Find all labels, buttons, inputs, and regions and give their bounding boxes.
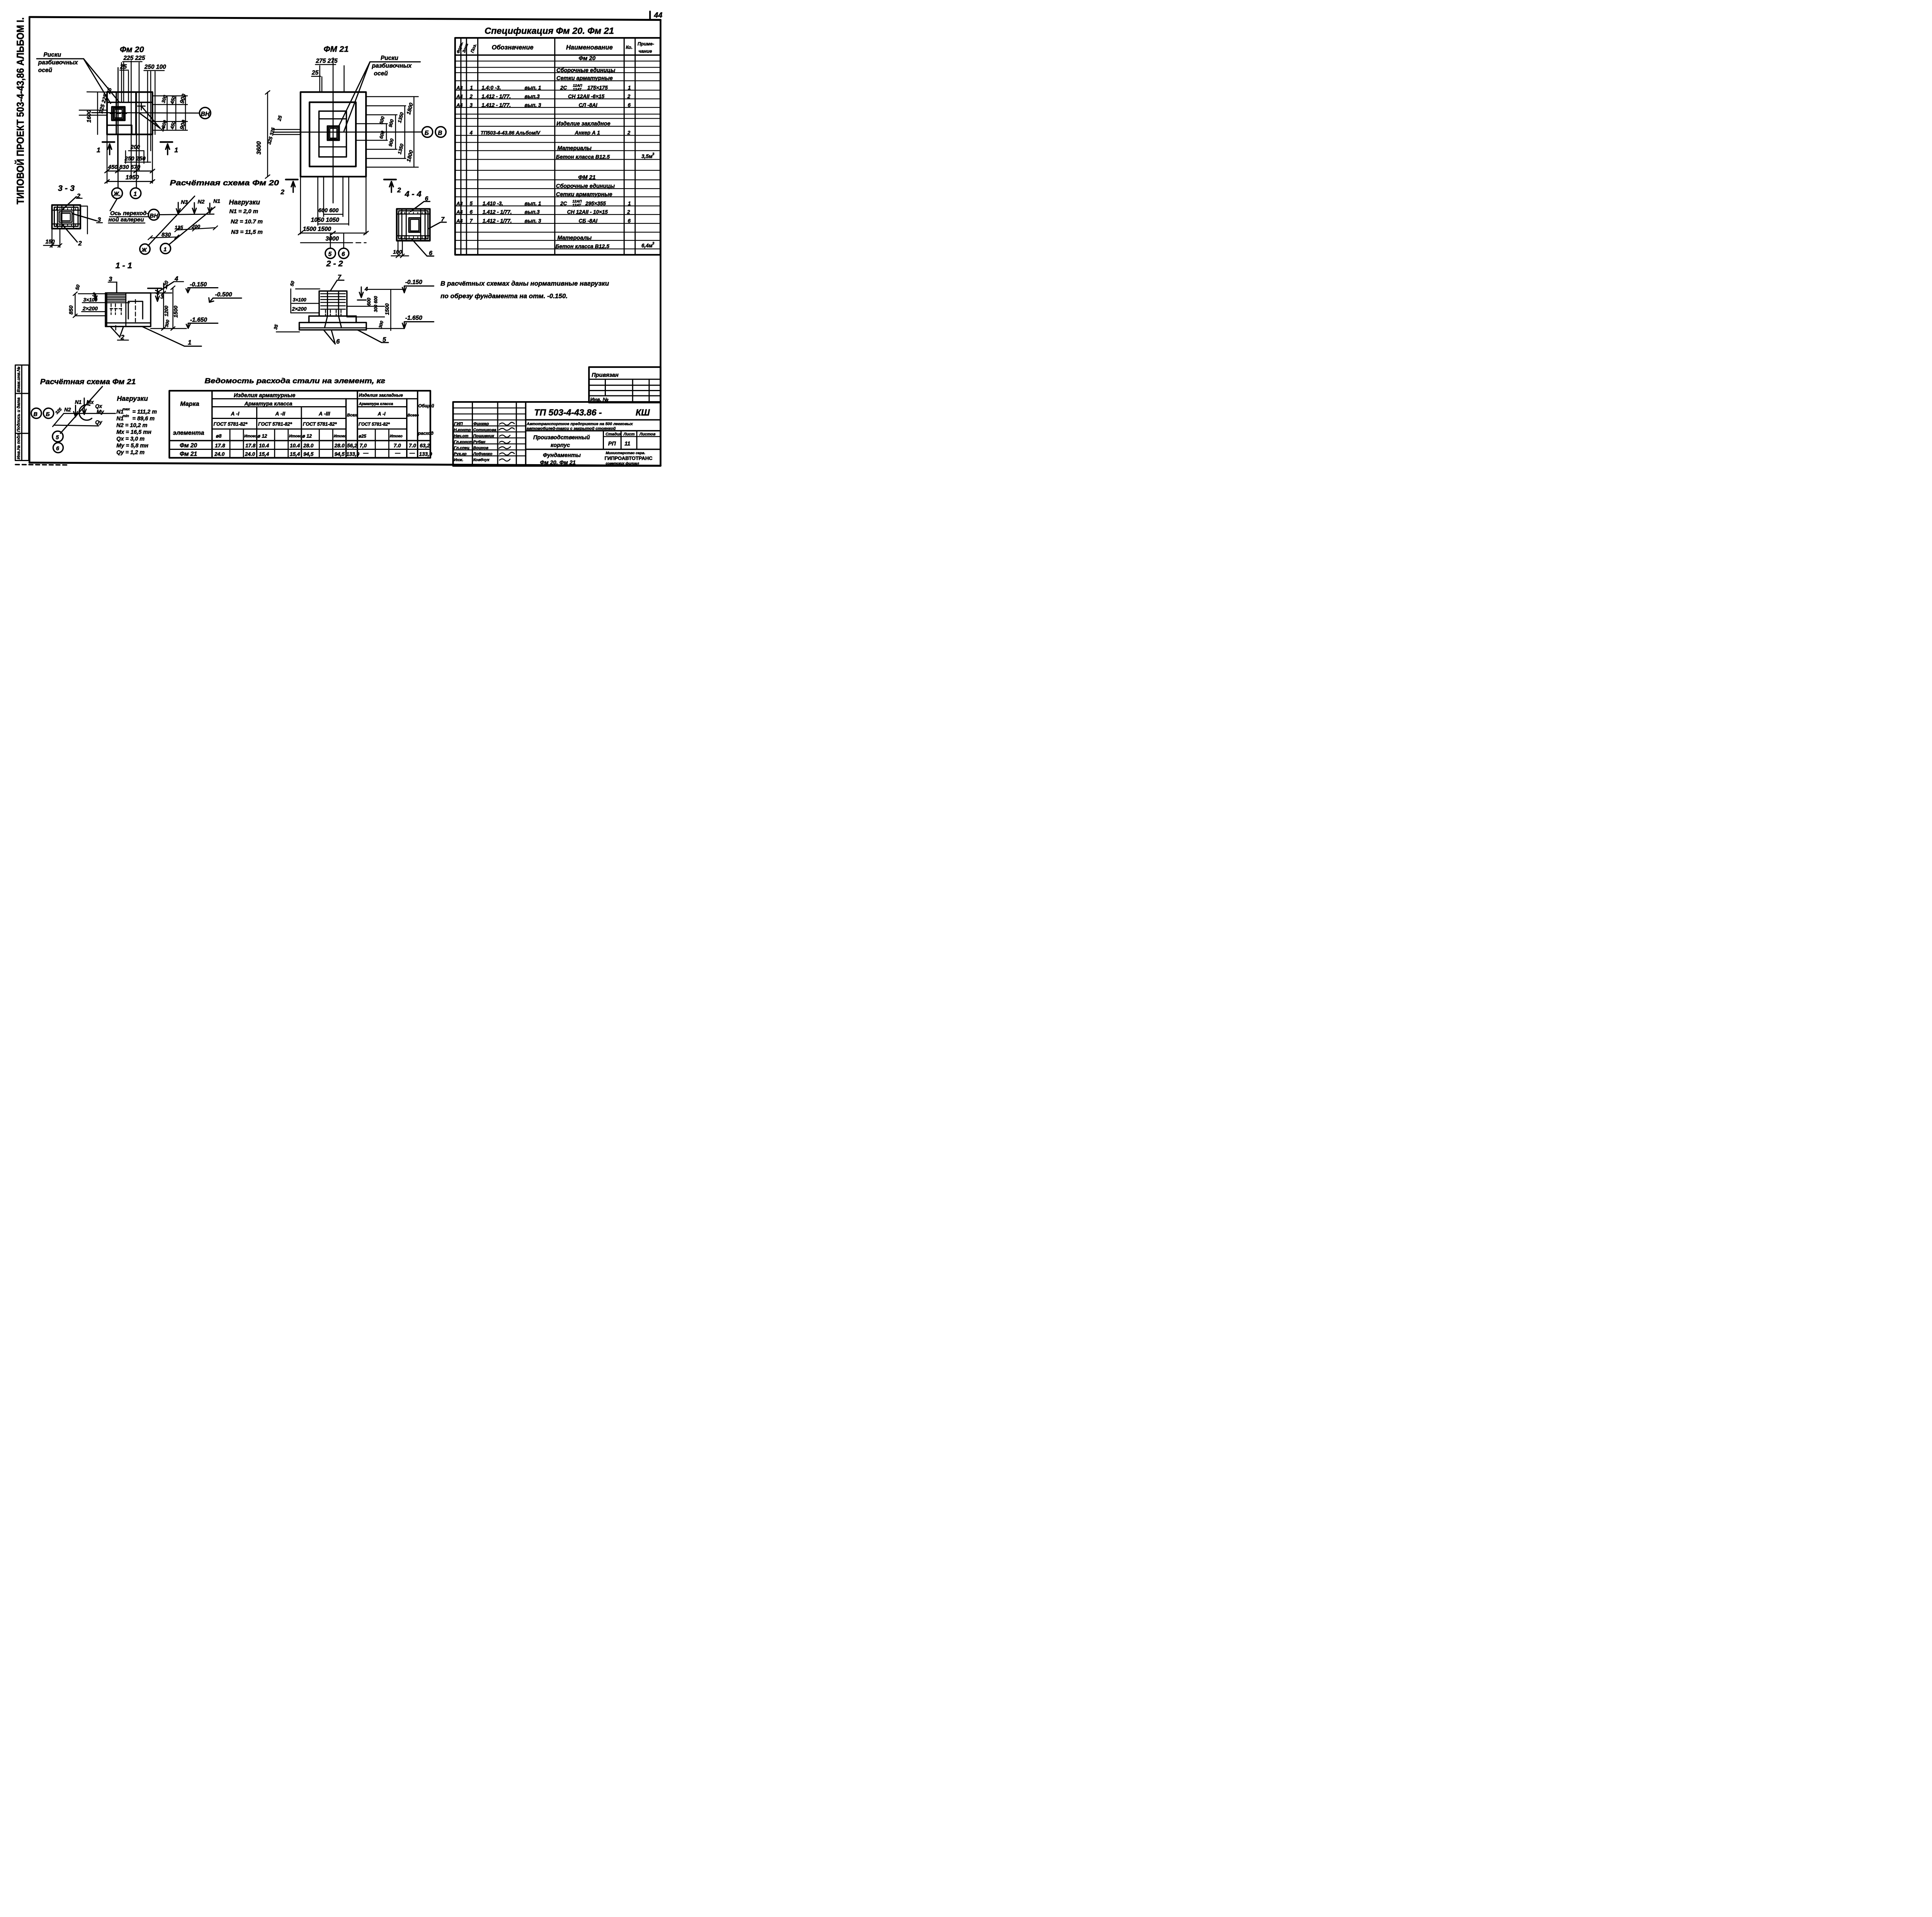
- circle 5: [53, 431, 63, 442]
- svg-text:Инж.: Инж.: [454, 458, 464, 462]
- svg-text:N2: N2: [64, 407, 71, 413]
- svg-text:ФМ 21: ФМ 21: [324, 44, 349, 54]
- svg-text:850: 850: [68, 305, 74, 315]
- svg-text:Материалы: Материалы: [558, 145, 592, 152]
- svg-text:ВН: ВН: [150, 213, 158, 219]
- svg-text:расход: расход: [418, 431, 434, 436]
- svg-text:ГОСТ 5781-82*: ГОСТ 5781-82*: [303, 421, 337, 427]
- svg-text:15,4: 15,4: [290, 451, 300, 457]
- svg-text:ТИПОВОЙ ПРОЕКТ 503-4-43,86 АЛЬ: ТИПОВОЙ ПРОЕКТ 503-4-43,86 АЛЬБОМ I.: [14, 17, 26, 204]
- specification table: [455, 26, 660, 255]
- svg-text:3,5м: 3,5м: [641, 153, 653, 159]
- svg-text:Риски: Риски: [44, 51, 61, 58]
- svg-text:Министерство серв.: Министерство серв.: [606, 451, 645, 455]
- svg-text:1: 1: [628, 201, 631, 206]
- svg-text:Фм 20, Фм 21: Фм 20, Фм 21: [540, 460, 576, 466]
- svg-text:А -III: А -III: [318, 411, 330, 417]
- right 3 section arrow: [148, 286, 162, 291]
- leader lines to plan: [83, 59, 111, 104]
- svg-text:max: max: [122, 407, 130, 411]
- svg-text:2: 2: [78, 240, 82, 247]
- svg-text:56,2: 56,2: [347, 443, 357, 449]
- stage table: [604, 431, 637, 449]
- svg-text:Qу: Qу: [95, 419, 103, 425]
- U-shaped anchor channel: [128, 301, 143, 319]
- svg-text:Б: Б: [46, 411, 50, 417]
- svg-text:Всех: Всех: [347, 413, 357, 418]
- axis circles B and V: [422, 127, 433, 138]
- svg-text:12АП: 12АП: [573, 83, 582, 88]
- svg-text:-1.650: -1.650: [190, 317, 207, 323]
- svg-text:ø8: ø8: [216, 434, 222, 439]
- svg-text:1500: 1500: [173, 306, 179, 318]
- svg-text:N1 = 2,0 т: N1 = 2,0 т: [230, 208, 259, 215]
- svg-text:Мх: Мх: [87, 399, 94, 405]
- svg-text:N2 = 10,2 т: N2 = 10,2 т: [116, 422, 147, 429]
- raschetnaya shema FM21: [31, 378, 157, 456]
- axis lines: [64, 411, 116, 415]
- FM20 plan: [37, 45, 211, 199]
- leader 7: [330, 280, 344, 291]
- funnel lines: [328, 291, 339, 316]
- svg-text:295×355: 295×355: [585, 201, 606, 206]
- svg-text:Взам.инв.№: Взам.инв.№: [16, 366, 21, 392]
- svg-text:2×200: 2×200: [82, 305, 98, 312]
- steel table outer: [169, 391, 430, 458]
- svg-text:4 - 4: 4 - 4: [405, 189, 422, 199]
- svg-text:7,0: 7,0: [360, 443, 367, 449]
- svg-text:—: —: [363, 450, 369, 456]
- svg-text:1.412 - 1/77,: 1.412 - 1/77,: [483, 209, 512, 215]
- svg-text:Фм 20: Фм 20: [579, 55, 596, 62]
- leader 2 top: [62, 197, 77, 210]
- leader 6 bottom: [412, 239, 434, 256]
- svg-text:28.0: 28.0: [303, 443, 314, 449]
- svg-text:осей: осей: [374, 70, 388, 77]
- svg-text:28.0: 28.0: [334, 443, 345, 449]
- mesh hatch: [321, 294, 345, 309]
- svg-text:Ковбчук: Ковбчук: [473, 458, 490, 462]
- right side small dims: [153, 94, 188, 98]
- svg-text:А4: А4: [456, 209, 463, 215]
- svg-text:7: 7: [338, 274, 342, 281]
- title block outer: [453, 402, 661, 466]
- svg-text:Ведомость расхода стали на: Ведомость расхода стали на элемент, кг: [205, 376, 386, 385]
- section 4-4: [391, 189, 447, 258]
- hatch lines top-left (mesh): [106, 295, 130, 303]
- N2 arrow: [74, 405, 78, 417]
- svg-text:133,9: 133,9: [419, 451, 432, 457]
- svg-text:3 - 3: 3 - 3: [58, 184, 75, 193]
- section mark 1 right: [160, 139, 172, 145]
- svg-text:ной галереи: ной галереи: [109, 216, 144, 223]
- svg-text:7: 7: [441, 216, 445, 223]
- inclined beam lines: [148, 196, 195, 246]
- svg-text:Листов: Листов: [639, 432, 656, 436]
- bottom extension lines: [299, 177, 303, 234]
- svg-text:разбивочных: разбивочных: [38, 59, 78, 66]
- left margin sidebar boxes: [15, 365, 68, 465]
- svg-text:5: 5: [470, 201, 473, 206]
- svg-text:3: 3: [652, 242, 655, 246]
- title block: [453, 402, 661, 466]
- svg-text:В: В: [438, 130, 442, 136]
- column body: [319, 291, 347, 316]
- svg-text:Фм 21: Фм 21: [180, 451, 197, 458]
- svg-text:300 600: 300 600: [374, 296, 378, 312]
- bottom slab line: [105, 321, 151, 325]
- steel group verticals: [257, 407, 302, 458]
- svg-text:200: 200: [130, 144, 140, 150]
- svg-text:15,4: 15,4: [259, 451, 269, 457]
- svg-text:5: 5: [328, 251, 332, 258]
- svg-text:N3: N3: [181, 199, 188, 205]
- svg-text:ГИПРОАВТОТРАНС: ГИПРОАВТОТРАНС: [605, 455, 653, 461]
- svg-text:1: 1: [628, 85, 631, 90]
- svg-text:Гл.конст: Гл.конст: [454, 440, 473, 444]
- center column square: [409, 218, 420, 232]
- steel consumption table: [169, 376, 434, 458]
- svg-text:17.8: 17.8: [215, 443, 225, 449]
- svg-text:11: 11: [624, 441, 630, 447]
- svg-text:ВН: ВН: [201, 111, 210, 117]
- svg-text:Изделие закладное: Изделие закладное: [556, 121, 611, 127]
- bottom leaders 6 and 5: [324, 330, 335, 344]
- spec table column lines: [461, 38, 635, 255]
- signature rows: [453, 408, 526, 456]
- svg-text:12АТ: 12АТ: [572, 203, 581, 208]
- axis circles V and B: [31, 408, 42, 419]
- svg-text:94,5: 94,5: [303, 451, 314, 457]
- bottom leaders: [111, 327, 124, 337]
- svg-text:1 - 1: 1 - 1: [116, 261, 132, 270]
- svg-text:автомобилей-такси с закрытой с: автомобилей-такси с закрытой стоянкой: [527, 426, 616, 431]
- axis circles 5 6 below plan: [325, 248, 336, 259]
- svg-text:Марка: Марка: [180, 401, 199, 407]
- svg-text:24.0: 24.0: [245, 451, 255, 457]
- svg-text:Итого: Итого: [289, 434, 302, 438]
- svg-text:ГОСТ 5781-82*: ГОСТ 5781-82*: [359, 422, 390, 427]
- spec header row line: [455, 53, 660, 58]
- svg-text:А3: А3: [456, 85, 463, 90]
- rebar bars: [397, 209, 430, 241]
- svg-text:Изделия арматурные: Изделия арматурные: [234, 393, 295, 399]
- svg-text:6: 6: [429, 250, 432, 257]
- svg-text:—: —: [395, 450, 401, 456]
- svg-text:Лист: Лист: [623, 432, 635, 436]
- svg-text:175×175: 175×175: [587, 85, 608, 90]
- svg-text:1950: 1950: [126, 174, 139, 181]
- svg-text:А4: А4: [456, 102, 463, 108]
- svg-text:2: 2: [627, 130, 631, 136]
- riski cross mark: [138, 102, 145, 110]
- svg-text:1.412 - 1/77,: 1.412 - 1/77,: [483, 218, 512, 224]
- svg-text:Всего: Всего: [408, 414, 419, 418]
- svg-text:Стадия: Стадия: [605, 432, 622, 436]
- axis circles below: [112, 188, 122, 199]
- svg-text:1.412 - 1/77,: 1.412 - 1/77,: [481, 94, 511, 99]
- svg-text:А3: А3: [456, 201, 463, 206]
- svg-text:3×100: 3×100: [83, 297, 98, 303]
- svg-text:3: 3: [652, 152, 655, 156]
- svg-text:6,4м: 6,4м: [641, 243, 653, 249]
- plan ring 3: [319, 111, 347, 157]
- svg-text:Финкер: Финкер: [473, 422, 489, 426]
- svg-text:N2: N2: [198, 198, 205, 204]
- left dim lines: [96, 92, 100, 134]
- section mark 1 left: [102, 139, 114, 145]
- svg-text:1: 1: [188, 339, 191, 346]
- section mark 2 right: [384, 176, 396, 183]
- svg-text:1500 1500: 1500 1500: [303, 226, 332, 233]
- svg-text:Мх = 16,5 тн: Мх = 16,5 тн: [116, 429, 151, 436]
- leader 4: [140, 107, 161, 129]
- section 3-3 square: [52, 205, 81, 229]
- svg-text:СЛ -8АI: СЛ -8АI: [579, 102, 598, 108]
- svg-text:Арматура класса: Арматура класса: [244, 400, 293, 407]
- svg-text:Производственный: Производственный: [533, 434, 590, 441]
- svg-text:1.412 - 1/77,: 1.412 - 1/77,: [481, 102, 511, 108]
- right dims extension lines: [366, 95, 418, 99]
- section mark 2 left: [286, 176, 298, 183]
- svg-text:В расчётных схемах даны нормат: В расчётных схемах даны нормативные нагр…: [440, 280, 609, 287]
- svg-text:Б: Б: [425, 130, 429, 136]
- svg-text:100: 100: [393, 249, 402, 255]
- svg-text:6: 6: [628, 218, 631, 224]
- svg-text:Арматура класса: Арматура класса: [359, 402, 393, 406]
- svg-text:2×200: 2×200: [292, 306, 307, 312]
- plan top edge extension: [87, 90, 107, 94]
- svg-text:24.0: 24.0: [214, 451, 225, 457]
- step 2: [309, 316, 356, 323]
- svg-text:советских филиал: советских филиал: [606, 461, 639, 465]
- main bands: [526, 420, 661, 449]
- svg-text:225 225: 225 225: [123, 55, 145, 61]
- svg-text:6: 6: [342, 251, 345, 258]
- svg-text:СН 12АII - 10×15: СН 12АII - 10×15: [567, 209, 608, 215]
- svg-text:ТП 503-4-43.86 -: ТП 503-4-43.86 -: [534, 407, 602, 417]
- svg-text:СБ -8АI: СБ -8АI: [579, 218, 598, 224]
- column footprint square: [112, 107, 125, 121]
- svg-text:3000: 3000: [326, 236, 339, 242]
- svg-text:275 275: 275 275: [316, 58, 338, 65]
- svg-text:6: 6: [628, 102, 631, 108]
- svg-text:ТП503-4-43.86 АльбомIV: ТП503-4-43.86 АльбомIV: [481, 130, 541, 136]
- svg-text:Нагрузки: Нагрузки: [117, 395, 148, 402]
- svg-text:6: 6: [56, 446, 60, 452]
- svg-text:3: 3: [470, 102, 473, 108]
- svg-text:2: 2: [280, 188, 284, 196]
- leader 3 right: [72, 214, 97, 221]
- svg-text:5: 5: [383, 336, 386, 343]
- circle 6: [53, 443, 63, 453]
- svg-text:вып. 3: вып. 3: [525, 102, 541, 108]
- svg-text:вып.3: вып.3: [525, 94, 540, 99]
- svg-text:по обрезу фундамента на отм. -: по обрезу фундамента на отм. -0.150.: [440, 292, 568, 300]
- plan outer contour: [107, 92, 153, 134]
- svg-text:вып. 1: вып. 1: [525, 85, 541, 90]
- svg-text:А4: А4: [456, 218, 463, 224]
- svg-text:вып. 1: вып. 1: [525, 201, 541, 206]
- svg-text:СН 12АII -6×15: СН 12АII -6×15: [568, 94, 605, 99]
- svg-text:44: 44: [654, 11, 663, 20]
- svg-text:250 250: 250 250: [124, 155, 146, 162]
- svg-text:1: 1: [134, 191, 137, 197]
- svg-text:Ж: Ж: [141, 247, 147, 254]
- svg-text:2: 2: [469, 94, 473, 99]
- axis vertical: [331, 92, 335, 203]
- svg-text:600: 600: [366, 298, 372, 306]
- svg-text:6: 6: [425, 196, 429, 202]
- vertical axis line down: [116, 68, 120, 187]
- svg-text:= 89,6 т: = 89,6 т: [133, 416, 155, 422]
- note text: [440, 280, 609, 300]
- svg-text:Матероалы: Матероалы: [558, 235, 592, 241]
- svg-text:N2 = 10.7 т: N2 = 10.7 т: [231, 218, 263, 225]
- svg-text:450 830 670: 450 830 670: [108, 164, 141, 170]
- svg-text:ГИП: ГИП: [454, 422, 463, 426]
- svg-text:25: 25: [311, 70, 319, 76]
- left dims: [266, 92, 270, 177]
- svg-text:Фм 20: Фм 20: [180, 443, 197, 449]
- svg-text:корпус: корпус: [551, 442, 570, 448]
- svg-text:Изделия закладные: Изделия закладные: [359, 393, 403, 398]
- dim 100 below: [398, 241, 402, 255]
- svg-text:Qх: Qх: [95, 403, 102, 409]
- svg-text:Сборочные единицы: Сборочные единицы: [556, 183, 615, 189]
- svg-text:ГОСТ 5781-82*: ГОСТ 5781-82*: [214, 421, 248, 427]
- svg-text:7.0: 7.0: [394, 443, 401, 449]
- svg-text:94,5: 94,5: [335, 451, 345, 457]
- frame border: [29, 17, 660, 466]
- FM21 plan: [256, 44, 446, 259]
- extension lines above plan: [120, 63, 124, 102]
- svg-text:ø 12: ø 12: [302, 434, 312, 439]
- leader 6 top: [411, 201, 430, 211]
- svg-text:Наименование: Наименование: [566, 44, 613, 51]
- svg-text:Воинов: Воинов: [473, 446, 489, 450]
- svg-text:Гл.спец: Гл.спец: [454, 446, 470, 450]
- svg-text:Фундаменты: Фундаменты: [543, 453, 581, 459]
- svg-text:Итого: Итого: [334, 434, 347, 438]
- ring3 inner step lines: [319, 117, 347, 121]
- svg-text:Итого: Итого: [390, 434, 403, 438]
- svg-text:N1: N1: [213, 198, 220, 204]
- inner column verticals: [107, 293, 126, 327]
- note riski razbivochnyh osej (fm21): [338, 55, 420, 131]
- svg-text:7.0: 7.0: [409, 443, 416, 449]
- svg-text:Риски: Риски: [381, 55, 398, 61]
- svg-text:Спецификация Фм 20. Фм 21: Спецификация Фм 20. Фм 21: [485, 26, 614, 36]
- svg-text:Итого: Итого: [244, 434, 257, 438]
- svg-text:1: 1: [174, 146, 178, 154]
- svg-text:А -I: А -I: [231, 411, 240, 417]
- svg-text:Сетки арматурные: Сетки арматурные: [556, 75, 613, 82]
- horizontal axis line to VN circle: [92, 113, 199, 113]
- svg-text:10.4: 10.4: [290, 443, 300, 449]
- svg-text:Бетон класса В12,5: Бетон класса В12,5: [556, 243, 610, 249]
- svg-text:Лобченко: Лобченко: [473, 452, 493, 456]
- svg-text:Сетки арматурные: Сетки арматурные: [556, 192, 612, 198]
- svg-text:Обозначение: Обозначение: [492, 44, 534, 51]
- svg-text:Общий: Общий: [418, 404, 434, 409]
- svg-text:17.8: 17.8: [245, 443, 256, 449]
- note riski razbivochnyh osej: [37, 51, 119, 103]
- column square center: [327, 126, 339, 140]
- svg-text:Инв.№ подл.: Инв.№ подл.: [16, 432, 21, 460]
- svg-text:1.4:0 -3,: 1.4:0 -3,: [481, 85, 501, 90]
- steel main verticals: [212, 391, 418, 458]
- svg-text:Нагрузки: Нагрузки: [229, 198, 260, 206]
- svg-text:600 600: 600 600: [318, 208, 338, 214]
- svg-text:КШ: КШ: [636, 407, 650, 417]
- svg-text:Ж.: Ж.: [113, 191, 121, 197]
- circle VN: [148, 209, 159, 220]
- svg-text:-1.650: -1.650: [405, 315, 422, 322]
- svg-text:133,9: 133,9: [346, 451, 359, 457]
- svg-text:Фм 20: Фм 20: [120, 45, 144, 54]
- spec row lines: [455, 61, 660, 249]
- svg-text:= 111,2 т: = 111,2 т: [133, 409, 157, 415]
- svg-text:4: 4: [469, 130, 473, 136]
- small inner mesh dashes: [110, 304, 122, 315]
- svg-text:1050 1050: 1050 1050: [311, 217, 340, 223]
- svg-text:Расчётная схема Фм 20: Расчётная схема Фм 20: [170, 179, 279, 187]
- svg-text:4: 4: [160, 126, 164, 133]
- svg-text:1.410 -3,: 1.410 -3,: [483, 201, 503, 206]
- schema circles: [140, 244, 150, 254]
- svg-text:ГОСТ 5781-82*: ГОСТ 5781-82*: [258, 421, 293, 427]
- svg-text:min: min: [122, 414, 129, 418]
- section 4-4 rebar dots: [401, 213, 426, 238]
- svg-text:Рук.гр: Рук.гр: [454, 452, 467, 456]
- svg-text:ФМ 21: ФМ 21: [578, 174, 595, 180]
- section 3-3 right bracket dim: [80, 206, 87, 234]
- svg-text:6: 6: [470, 209, 473, 215]
- leader 7 right: [428, 222, 447, 229]
- svg-text:-0.150: -0.150: [190, 281, 207, 288]
- axis horizontal to B circles: [274, 130, 422, 134]
- svg-text:Анкер А 1: Анкер А 1: [575, 130, 600, 136]
- svg-text:А -II: А -II: [275, 411, 286, 417]
- svg-text:1: 1: [163, 247, 167, 253]
- svg-text:1: 1: [97, 146, 100, 154]
- svg-text:250 100: 250 100: [144, 64, 166, 70]
- svg-text:вып.3: вып.3: [525, 209, 540, 215]
- section 1-1: [68, 261, 241, 346]
- signature table verticals: [473, 402, 517, 466]
- steel header horizontals: [212, 397, 418, 401]
- svg-text:Привязан: Привязан: [592, 372, 619, 378]
- svg-text:Му: Му: [97, 409, 104, 415]
- svg-text:1: 1: [470, 85, 473, 90]
- dashed line under sidebar: [15, 465, 68, 465]
- svg-text:2 - 2: 2 - 2: [326, 259, 343, 268]
- svg-text:63,2: 63,2: [420, 443, 430, 449]
- axis circle VN: [199, 107, 211, 119]
- N1 arrow: [82, 398, 86, 415]
- svg-text:2С: 2С: [560, 85, 567, 90]
- svg-text:Qх = 3,0 т: Qх = 3,0 т: [116, 436, 145, 442]
- Mx arc: [79, 405, 92, 420]
- svg-text:Сотникова: Сотникова: [473, 428, 497, 432]
- svg-text:разбивочных: разбивочных: [372, 63, 412, 69]
- base slab: [299, 323, 367, 330]
- diagonal member: [60, 386, 102, 433]
- svg-text:3600: 3600: [256, 141, 262, 155]
- steel subcol verticals: [230, 429, 389, 458]
- raschetnaya shema FM20: [109, 179, 279, 254]
